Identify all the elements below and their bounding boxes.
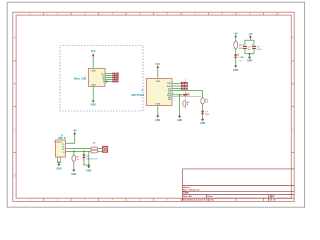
svg-text:VDD: VDD	[156, 81, 161, 83]
ground J1	[56, 164, 61, 170]
svg-text:GND: GND	[86, 170, 91, 172]
wire D1 to ground	[235, 57, 237, 66]
svg-text:GND: GND	[71, 174, 76, 176]
wire R4 to D4	[202, 104, 204, 111]
frame inner border	[16, 15, 291, 198]
svg-text:BAT54C-TP: BAT54C-TP	[86, 158, 98, 161]
frame zone ticks right	[291, 61, 294, 152]
wire J1 grounds	[58, 159, 61, 164]
svg-text:GND: GND	[156, 104, 161, 106]
wire U2 RX	[172, 85, 181, 87]
resistor R5	[72, 155, 80, 161]
svg-text:GND: GND	[233, 70, 238, 72]
ground diode join	[86, 166, 91, 172]
svg-text:+5V: +5V	[248, 34, 253, 36]
junction caps	[249, 53, 251, 55]
power VCC U1	[91, 51, 96, 56]
global label USB_D-	[112, 75, 119, 77]
pin stub U2 bottom	[157, 106, 159, 108]
wire diode join	[84, 151, 89, 166]
frame zone ticks top	[44, 12, 264, 15]
svg-text:GND: GND	[177, 120, 182, 122]
frame zone numbers bottom	[29, 198, 168, 202]
junction diode branch	[83, 151, 85, 153]
diode D4	[201, 111, 210, 116]
pin stub J1 left	[54, 141, 56, 143]
resistor R4	[201, 98, 210, 104]
svg-text:C: C	[292, 128, 294, 132]
junction diode join	[88, 164, 90, 166]
junction J1 ground	[58, 162, 60, 164]
fuse F1 upper element	[91, 147, 98, 150]
pin stubs J1 right	[66, 143, 68, 151]
wire U1 pin ID	[105, 77, 112, 79]
wire D4 to ground	[202, 114, 204, 119]
wire RST to ground	[179, 95, 181, 116]
svg-text:GND: GND	[91, 84, 96, 86]
global label TXD	[181, 82, 188, 84]
svg-text:B: B	[14, 82, 16, 86]
ESD protection box	[103, 146, 108, 152]
svg-text:LED: LED	[240, 57, 245, 59]
svg-text:+5V: +5V	[73, 130, 78, 132]
frame zone letters left	[14, 36, 16, 178]
ghost resistor at cursor	[183, 101, 191, 107]
wire data lower	[67, 150, 103, 152]
svg-text:Size: A4: Size: A4	[183, 195, 192, 198]
global label RXD	[181, 85, 188, 87]
power +5V J1	[73, 130, 78, 134]
svg-text:VCC: VCC	[91, 51, 96, 53]
wire GND U2	[157, 108, 159, 116]
wire U2 EN long	[172, 91, 203, 98]
wire VBUS riser	[67, 135, 75, 144]
svg-text:1: 1	[85, 76, 86, 78]
svg-text:VCC: VCC	[155, 64, 160, 66]
wire R5 to ground	[73, 161, 75, 169]
wire U1 pin D-	[105, 75, 112, 77]
svg-text:Title: Title	[183, 191, 189, 195]
svg-text:Micro_USB: Micro_USB	[74, 79, 87, 81]
frame outer border	[13, 12, 294, 201]
power VCC U2	[155, 64, 160, 68]
svg-text:B: B	[292, 82, 294, 86]
wire U2 TX	[172, 82, 181, 84]
svg-text:D: D	[14, 173, 16, 177]
value label D5	[86, 156, 98, 161]
wire U2 RST	[172, 94, 183, 96]
capacitor C2	[252, 45, 262, 51]
ground cap group	[247, 57, 252, 63]
junction top-left group	[106, 81, 108, 83]
junction RST	[179, 94, 181, 96]
ground GND U1	[91, 101, 96, 107]
junction resistor branch	[73, 151, 75, 153]
group box (dashed selection rectangle)	[60, 46, 143, 112]
pin stubs J1 bottom	[58, 157, 61, 159]
global label SHLD	[112, 81, 118, 83]
ground RST	[177, 116, 182, 123]
svg-text:A: A	[14, 36, 16, 40]
IC U2 body	[147, 79, 173, 106]
IC U1 body	[89, 68, 106, 86]
frame zone letters right	[292, 36, 294, 132]
pin stub U1 bottom	[92, 86, 94, 88]
cursor crosshair	[171, 79, 201, 109]
ground D4	[200, 119, 205, 125]
title block	[183, 169, 295, 201]
wire U2 IO0	[172, 88, 181, 90]
pin stub U1 top	[92, 66, 94, 68]
pin stub U2 top	[157, 77, 159, 79]
frame zone ticks bottom	[44, 198, 264, 201]
frame zone numbers top	[29, 12, 279, 16]
svg-text:KiCad E.D.A. kicad 7.0.11-1.0u: KiCad E.D.A. kicad 7.0.11-1.0ub	[183, 199, 215, 202]
svg-text:GND: GND	[247, 61, 252, 63]
resistor R1	[234, 41, 244, 50]
global label USB_D+	[112, 73, 119, 75]
connector J1 body	[56, 140, 66, 157]
svg-text:U?: U?	[141, 90, 143, 92]
fuse F1 lower element	[91, 150, 98, 153]
power +5V LED column	[234, 34, 239, 38]
wire VCC U1	[92, 57, 94, 67]
sheet edge	[7, 2, 304, 207]
global label USB_ID	[112, 77, 119, 79]
svg-text:GND: GND	[56, 168, 61, 170]
diode D3 on RST wire	[184, 93, 191, 96]
wire U1 pin G	[105, 79, 112, 81]
svg-text:ESP-07/12E: ESP-07/12E	[131, 95, 144, 97]
ground GND U2	[155, 116, 160, 123]
wire U1 pin D+	[105, 73, 112, 75]
global label IO0	[181, 88, 188, 90]
global label GND_A	[112, 79, 118, 81]
ground R5	[71, 170, 76, 176]
wire data upper	[67, 148, 103, 150]
svg-text:3: 3	[173, 93, 174, 95]
svg-text:Date:: Date:	[208, 195, 214, 198]
wire U1 pin SHIELD	[105, 81, 112, 83]
svg-text:GND: GND	[200, 123, 205, 125]
power +5V cap group	[248, 34, 253, 38]
svg-text:GND: GND	[155, 120, 160, 122]
diode D5	[82, 154, 85, 160]
wire +5V caps	[245, 38, 254, 46]
svg-text:C: C	[14, 128, 16, 132]
wire to R5	[73, 151, 75, 155]
svg-text:A: A	[292, 36, 294, 40]
svg-text:0.1u: 0.1u	[257, 49, 262, 51]
capacitor C1	[243, 45, 252, 51]
wire GND U1	[92, 88, 94, 100]
svg-text:VDD: VDD	[91, 71, 96, 73]
svg-text:Id: 1/1: Id: 1/1	[270, 200, 277, 202]
wire caps to ground	[245, 49, 254, 57]
frame zone ticks left	[13, 61, 16, 152]
svg-text:GND: GND	[91, 105, 96, 107]
wire VCC U2	[157, 68, 159, 77]
title block text	[183, 186, 277, 202]
wire R1 to D1	[235, 49, 237, 54]
LED D1	[234, 54, 244, 63]
wire to D5	[83, 151, 85, 154]
wire +5V to R1	[235, 37, 237, 41]
ground LED column	[233, 66, 238, 73]
svg-text:LED: LED	[205, 114, 210, 116]
